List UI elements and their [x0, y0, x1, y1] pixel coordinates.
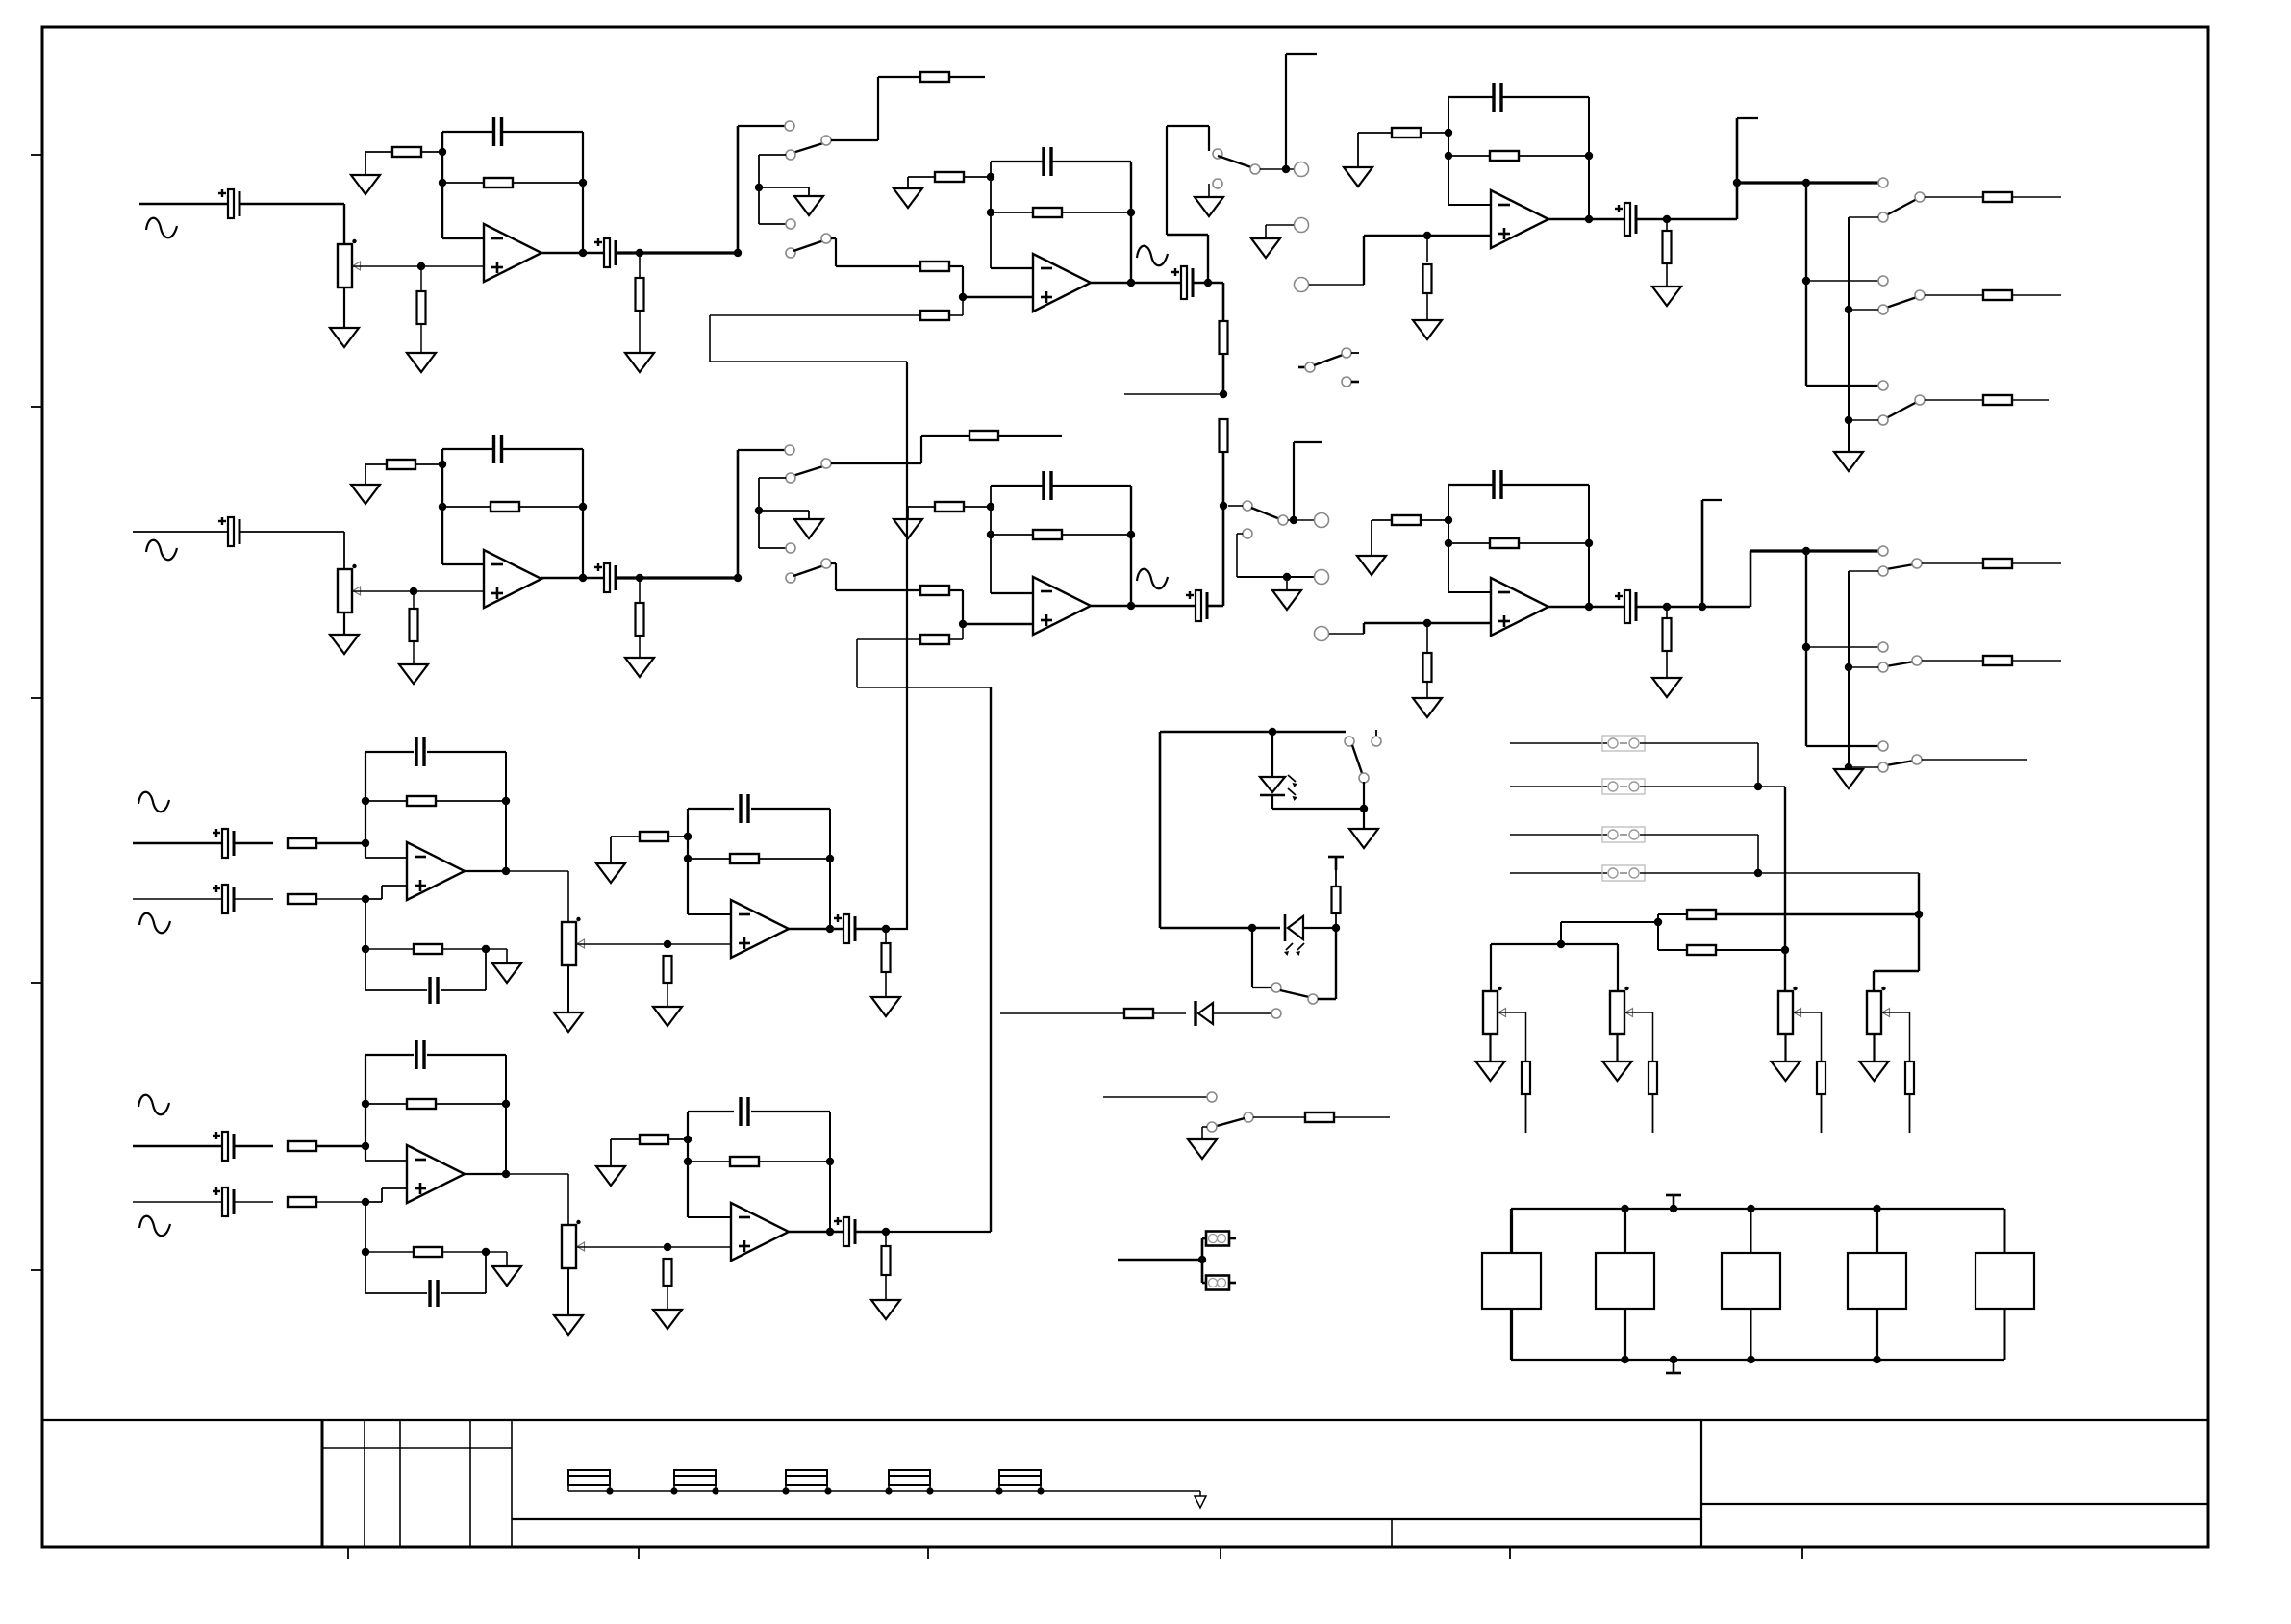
ground J2 [1251, 238, 1280, 258]
potentiometer R42 monitor level [1610, 987, 1633, 1034]
junction U3B output [1585, 603, 1593, 611]
switch S2 contact a [786, 248, 795, 258]
capacitor C9 ch2 feedback [494, 435, 502, 463]
wire ch1 bank row B [1806, 280, 1879, 282]
wire LED2 right [1303, 927, 1336, 929]
junction R28 [987, 503, 994, 511]
op-amp U2A ch1 tone [1033, 254, 1091, 312]
junction U1B output [579, 574, 587, 582]
wire U14 bottom [2004, 1309, 2006, 1360]
wire R30 to ground [1426, 682, 1428, 698]
ground R9 [894, 188, 922, 208]
ground pot R41 [1476, 1062, 1505, 1081]
junction fuse bus x701 [670, 1487, 677, 1494]
wire U13 bottom [1876, 1309, 1878, 1360]
source V2 sine [146, 540, 177, 561]
wire aux riser ch1 [709, 315, 711, 362]
wire ch1 bank bus2 [1848, 217, 1850, 452]
title block row line [322, 1447, 512, 1449]
arrow fuse bus end [1195, 1491, 1206, 1508]
wire to U5A + input [667, 943, 731, 945]
wire row4 riser [1918, 873, 1920, 914]
junction ch2 bus A [1802, 547, 1810, 555]
wire aux2 input A [133, 1145, 222, 1147]
ground wiper load [653, 1007, 682, 1026]
fuse F3 [786, 1470, 827, 1491]
junction U4B output [502, 1170, 510, 1178]
wire aux riser ch2 [856, 639, 858, 687]
wire to C9 [442, 448, 493, 450]
junction U5A output [826, 925, 834, 933]
junction fuse bus x967 [926, 1487, 933, 1494]
wire down to ground S1 [808, 187, 810, 196]
wire LED1 to switch [1272, 808, 1364, 810]
LED D1 [1260, 775, 1297, 801]
wire monitor row JP5 left [1510, 834, 1607, 836]
wire divider bottom [1222, 452, 1225, 606]
wire contacts vertical ch2 [758, 478, 760, 548]
wire R28 to - node [964, 506, 991, 508]
resistor R43 wiper load [1817, 1062, 1825, 1094]
switch S3 lever [1218, 156, 1251, 167]
potentiometer R43 monitor level [1778, 987, 1801, 1034]
connector J2 ch1 return a [1295, 218, 1309, 233]
wire U10 bottom [1510, 1309, 1513, 1360]
wire U3B - vertical [1448, 485, 1449, 592]
switch S13 contact b [1342, 377, 1351, 387]
resistor R6 ch1 send [920, 72, 949, 82]
ground R30 [1413, 698, 1442, 717]
ground wiper load [653, 1310, 682, 1329]
switch S1 contact a [785, 121, 794, 131]
wire loop top [1167, 125, 1209, 127]
wire + input jog [381, 886, 383, 899]
wire C8 to pot [240, 531, 344, 533]
wire jumper feed [1118, 1259, 1202, 1262]
resistor R3 ch1 bias [417, 291, 426, 324]
wire cap row right [441, 1292, 486, 1294]
fuse F5 [999, 1470, 1041, 1491]
wire aux1 + bias vertical [365, 899, 366, 990]
junction R31 [1445, 516, 1452, 524]
wire C50 to R [235, 842, 273, 844]
wire R51 to + node [316, 898, 365, 900]
ground pot R43 [1772, 1062, 1800, 1081]
wire R16 to ground [1666, 263, 1668, 287]
resistor R56 aux2 feedback [407, 1099, 436, 1109]
ground R1 [351, 175, 380, 194]
wire R37 to D3 [1153, 1012, 1186, 1014]
junction divider ch2 tap [1220, 502, 1227, 510]
wire S12 out stub [1922, 759, 2027, 761]
junction rows 1-2 [1754, 783, 1762, 790]
wire wiper load to ground [667, 1286, 668, 1310]
wire R24 to ground [639, 636, 641, 658]
switch S9 contact b [1243, 529, 1252, 538]
wire to out load R [885, 1232, 887, 1246]
ground aux2 out load [871, 1300, 900, 1319]
wire to U2A + input [963, 296, 1033, 299]
junction aux2 fb R left [362, 1100, 369, 1108]
wire R5 to ground [639, 311, 641, 353]
wire to J5 [1237, 576, 1314, 578]
junction Rb riser [1781, 946, 1789, 954]
resistor R41 wiper load [1522, 1062, 1530, 1094]
capacitor C10 ch2 coupling [594, 563, 616, 592]
wire U4B to pot [506, 1173, 568, 1175]
junction fuse bus x744 [712, 1487, 718, 1494]
wire ch1 select riser [737, 126, 740, 253]
switch S5 contact b [1878, 305, 1888, 314]
wire monitor row JP3 left [1510, 742, 1607, 744]
switch S3 pole [1250, 164, 1260, 174]
wire aux2 - input [365, 1160, 407, 1162]
wire mix tap drop [1560, 922, 1562, 944]
wire R3 to ground [420, 324, 422, 353]
switch S5 contact a [1878, 276, 1888, 286]
junction aux2 + node [362, 1198, 369, 1206]
resistor R38 aux [1305, 1112, 1334, 1122]
connector J1 ch1 send [1295, 162, 1309, 177]
resistor R52b U5A feedback [730, 854, 759, 863]
wire U5A bias R right [668, 836, 688, 837]
switch S14 pole [1345, 737, 1354, 746]
connector J6 ch2 return b [1315, 627, 1329, 641]
junction U5B fb R left [684, 1158, 692, 1165]
wire wiper load to ground [667, 983, 668, 1007]
switch S1 contact c [786, 219, 795, 229]
junction U4A output [502, 867, 510, 875]
junction R32 right [1585, 539, 1593, 547]
op-amp U4B aux2 diff [407, 1145, 465, 1203]
potentiometer R2 ch1 volume [338, 239, 361, 287]
potentiometer R21 ch2 volume [338, 564, 361, 612]
junction C5 out [1204, 279, 1212, 287]
switch S9 pole [1278, 515, 1288, 525]
capacitor C51c aux1 out coupling [834, 914, 855, 943]
wire C10 to select switch [617, 576, 738, 579]
capacitor C8 input ch2 [218, 517, 239, 546]
capacitor C2 ch1 feedback [494, 117, 502, 146]
wire U5B bias R right [668, 1138, 688, 1140]
ground pot R42 [1603, 1062, 1632, 1081]
power block U12 [1722, 1253, 1780, 1309]
switch S16 contact b [1207, 1122, 1217, 1132]
wire C55 to R [235, 1201, 273, 1203]
resistor R55 aux2 in B [288, 1197, 316, 1207]
junction J4 feed [1290, 516, 1297, 524]
junction U5A fb R right [826, 855, 834, 862]
wire fb cap right [427, 1054, 506, 1056]
wire U5B - input [688, 1216, 731, 1218]
connector JP2 [1206, 1276, 1236, 1290]
junction ground branch [755, 184, 763, 191]
wire R26 to + node [962, 590, 964, 624]
wire D3 to connector [1213, 1012, 1271, 1014]
wire aux1 output riser [886, 362, 907, 929]
junction LED2 left [1248, 924, 1256, 932]
wire ch1 bank bus1 [1805, 183, 1807, 386]
junction feedback R23 right [579, 503, 587, 511]
junction R29 left [987, 531, 994, 538]
wire R7 to + node [962, 266, 964, 297]
wire S6 contact b to bus2 [1849, 419, 1878, 421]
wire ch2 stage2 feedback vertical [1130, 486, 1132, 606]
switch S2 pole [821, 234, 831, 243]
connector J4 ch2 send [1315, 513, 1329, 528]
test point sine ch1 [1137, 246, 1168, 266]
ground R3 [407, 353, 436, 372]
wire to R32 [1448, 542, 1490, 544]
wire divider tap stub [1124, 393, 1223, 395]
wire to fb R [365, 800, 407, 802]
resistor R57 aux2 + bias [414, 1247, 442, 1257]
wire U10 top [1510, 1209, 1513, 1253]
wire to pot R42 [1617, 944, 1619, 991]
ground S7 [794, 519, 823, 538]
wire U12 bottom [1750, 1309, 1752, 1360]
wire R1 to ground [365, 152, 366, 175]
wire R41 load stub [1525, 1094, 1527, 1133]
wire row4 right [1640, 872, 1919, 874]
wire power bottom bus [1511, 1359, 2004, 1361]
junction R14 [1445, 129, 1452, 137]
frame tick left y423 [31, 406, 42, 408]
ground ch1 bank [1834, 452, 1863, 471]
wire fb cap right [751, 808, 830, 810]
junction ch1 select node [734, 249, 742, 257]
wire C7 to bank [1637, 218, 1737, 221]
wire contact b branch [759, 154, 786, 156]
resistor R31 ch2 out bias2 [1392, 515, 1421, 525]
junction J5 ground [1283, 573, 1291, 581]
wire S7 pole out [831, 462, 921, 464]
junction R29 right [1127, 531, 1135, 538]
wire R9 ground drop [907, 177, 909, 188]
wire R42 load stub [1652, 1094, 1654, 1133]
resistor R53b U5A bias [640, 832, 668, 841]
ground S16 [1188, 1139, 1217, 1159]
wire ch2 bank bus2 [1848, 571, 1850, 769]
wire to U5B fb R [688, 1161, 730, 1162]
wire aux from diff amp 2 [857, 687, 991, 688]
capacitor C56 aux2 feedback [416, 1040, 424, 1069]
ground aux1 + rail [492, 963, 521, 983]
switch S11 contact a [1878, 642, 1888, 652]
wire R41 wiper out [1498, 1012, 1526, 1013]
switch S4 lever [1886, 199, 1917, 215]
junction feedback R4 left [439, 179, 446, 187]
wire LED1 cathode [1271, 795, 1273, 809]
wire R20 left [365, 463, 387, 465]
resistor R54c aux2 out load [882, 1246, 891, 1275]
wire S4 to R17 [1925, 196, 1983, 198]
wire to U5B + input [667, 1246, 731, 1248]
wire LED loop left [1159, 732, 1162, 928]
wire U4B output [465, 1173, 506, 1175]
op-amp U2B ch2 tone [1033, 577, 1091, 635]
wire up to R6 [877, 77, 879, 140]
switch S14 contact b [1372, 737, 1381, 746]
wire C9 right [502, 448, 583, 450]
wire to R10 [991, 212, 1033, 213]
junction fuse bus x1039 [995, 1487, 1002, 1494]
capacitor C57 aux2 + bypass [430, 1280, 438, 1307]
ground aux1 out load [871, 997, 900, 1016]
ground R33 [1652, 678, 1681, 697]
wire S5 to R18 [1925, 294, 1983, 296]
wire ch1 bank riser [1736, 118, 1739, 219]
junction divider tap [1220, 390, 1227, 398]
wire contact c branch [759, 223, 786, 225]
wire row1 right [1640, 742, 1758, 744]
power block U13 [1848, 1253, 1906, 1309]
switch S3 contact b [1213, 179, 1222, 188]
wire J5 ground drop [1286, 577, 1288, 590]
wire to R29 [991, 534, 1033, 536]
resistor R17 out A [1983, 192, 2012, 202]
wire down to pot [567, 871, 569, 922]
resistor R30 ch2 out bias [1423, 653, 1432, 682]
wire U4A output [465, 870, 506, 872]
resistor R25 ch2 send [969, 431, 998, 440]
wire to S1 contact a [738, 125, 785, 127]
capacitor C4 ch1 stage2 feedback [1044, 147, 1051, 176]
wire C51 to R [235, 898, 273, 900]
wire to R6 [878, 76, 920, 78]
terminal VEE [1666, 1360, 1681, 1373]
potentiometer R54b aux2 level [562, 1220, 585, 1268]
wire R44 wiper drop [1909, 1012, 1911, 1062]
switch S4 contact b [1878, 212, 1888, 222]
wire U5A - input [688, 913, 731, 915]
switch S10 pole [1912, 559, 1922, 568]
wire ch2 stub [1702, 499, 1722, 501]
capacitor C55c aux2 out coupling [834, 1217, 855, 1246]
wire to U5A fb R [688, 858, 730, 860]
junction fuse bus x924 [885, 1487, 892, 1494]
resistor R4 ch1 feedback [484, 178, 513, 187]
wire loop right vertical [1207, 235, 1209, 283]
wire jumper vertical [1201, 1238, 1204, 1283]
wire LED2 bypass right [1335, 928, 1337, 999]
wire aux mix ch1 [710, 314, 920, 316]
wire + rail ground drop [506, 1252, 508, 1266]
junction C7 load [1663, 215, 1671, 223]
switch S12 lever [1886, 761, 1914, 765]
wire J3 riser [1363, 236, 1365, 285]
wire aux2 + input [382, 1187, 407, 1189]
wire U3A output [1548, 218, 1624, 220]
wire to R7 [836, 265, 920, 267]
wire R10 right [1062, 212, 1131, 213]
ground R31 [1357, 556, 1386, 575]
wire S9 contact b [1237, 533, 1243, 535]
junction ch2 + node [410, 587, 417, 595]
fuse F4 [889, 1470, 930, 1491]
op-amp U5A aux1 out [731, 900, 789, 958]
wire aux2 fb left vertical [365, 1055, 366, 1161]
wire J4 riser [1293, 442, 1295, 520]
wire pot to ground [567, 1268, 569, 1315]
wire R43 load stub [1821, 1094, 1823, 1133]
wire S9 pole to J4 [1288, 519, 1314, 521]
capacitor C52b U5A feedback [741, 794, 748, 823]
wire bias ground drop [610, 1139, 612, 1166]
wire to fb R [365, 1103, 407, 1105]
resistor R29 ch2 stage2 feedback [1033, 530, 1062, 539]
wire aux1 input B [133, 898, 222, 900]
wire ch1 bank stub [1737, 117, 1758, 119]
capacitor C54 aux2 in A [213, 1132, 234, 1161]
resistor R55b aux2 wiper load [664, 1259, 672, 1286]
wire to R22 [413, 591, 415, 609]
wire jog to pot R44 [1874, 970, 1919, 972]
frame tick bottom x1570 [1509, 1547, 1511, 1559]
wire to R36 [1335, 913, 1337, 928]
wire up to R25 [920, 436, 922, 463]
ground R24 [625, 658, 654, 677]
wire R20 to ground [365, 464, 366, 485]
junction R10 right [1127, 209, 1135, 216]
frame tick bottom x1269 [1220, 1547, 1221, 1559]
wire U13 top [1876, 1209, 1878, 1253]
wire U5A - vertical [687, 809, 689, 914]
junction fuse bus x634 [606, 1487, 613, 1494]
ground R20 [351, 485, 380, 504]
wire R6 stub [949, 76, 985, 78]
wire R32 right [1519, 542, 1589, 544]
frame tick left y1321 [31, 1269, 42, 1271]
junction U3A + bias [1423, 232, 1431, 239]
wire J1 riser [1285, 54, 1287, 169]
op-amp U5B aux2 out [731, 1203, 789, 1261]
switch S16 pole [1244, 1112, 1253, 1122]
power block U11 [1596, 1253, 1654, 1309]
wire R14 left [1358, 132, 1392, 134]
junction U5B output [826, 1228, 834, 1236]
switch S4 contact a [1878, 178, 1888, 187]
wire aux1 cap row left [365, 989, 427, 991]
wire R29 right [1062, 534, 1131, 536]
wire down to pot R2 [343, 204, 345, 244]
wire ch2 bank riser [1750, 551, 1752, 607]
junction R1-node [439, 148, 446, 156]
switch S15 lever [1280, 990, 1309, 997]
switch S8 contact a [786, 573, 795, 583]
capacitor C50 aux1 in A [213, 829, 234, 858]
resistor R40 monitor mix b [1687, 945, 1716, 955]
wire U2B - input [991, 592, 1033, 594]
title block small divider [1391, 1519, 1393, 1547]
wire to ground S7 [759, 510, 809, 512]
wire ch2 stub riser [1701, 500, 1704, 607]
wire R1 to - node [421, 151, 442, 153]
switch S6 pole [1915, 395, 1925, 405]
source V1 sine [146, 218, 177, 238]
resistor R27 ch2 aux mix [920, 635, 949, 644]
wire R21 wiper to op-amp [352, 590, 484, 592]
wire J1 riser stub [1286, 53, 1317, 55]
wire R9 to - node [964, 176, 991, 178]
resistor R11 divider upper [1220, 321, 1228, 354]
junction power bottom bus x1951 [1873, 1356, 1880, 1363]
resistor R57b U5B bias [640, 1135, 668, 1144]
wire monitor row JP4 left [1510, 786, 1607, 787]
wire to R16 [1666, 219, 1668, 231]
wire + rail right [442, 948, 486, 950]
wire S16 to R38 [1253, 1116, 1305, 1118]
